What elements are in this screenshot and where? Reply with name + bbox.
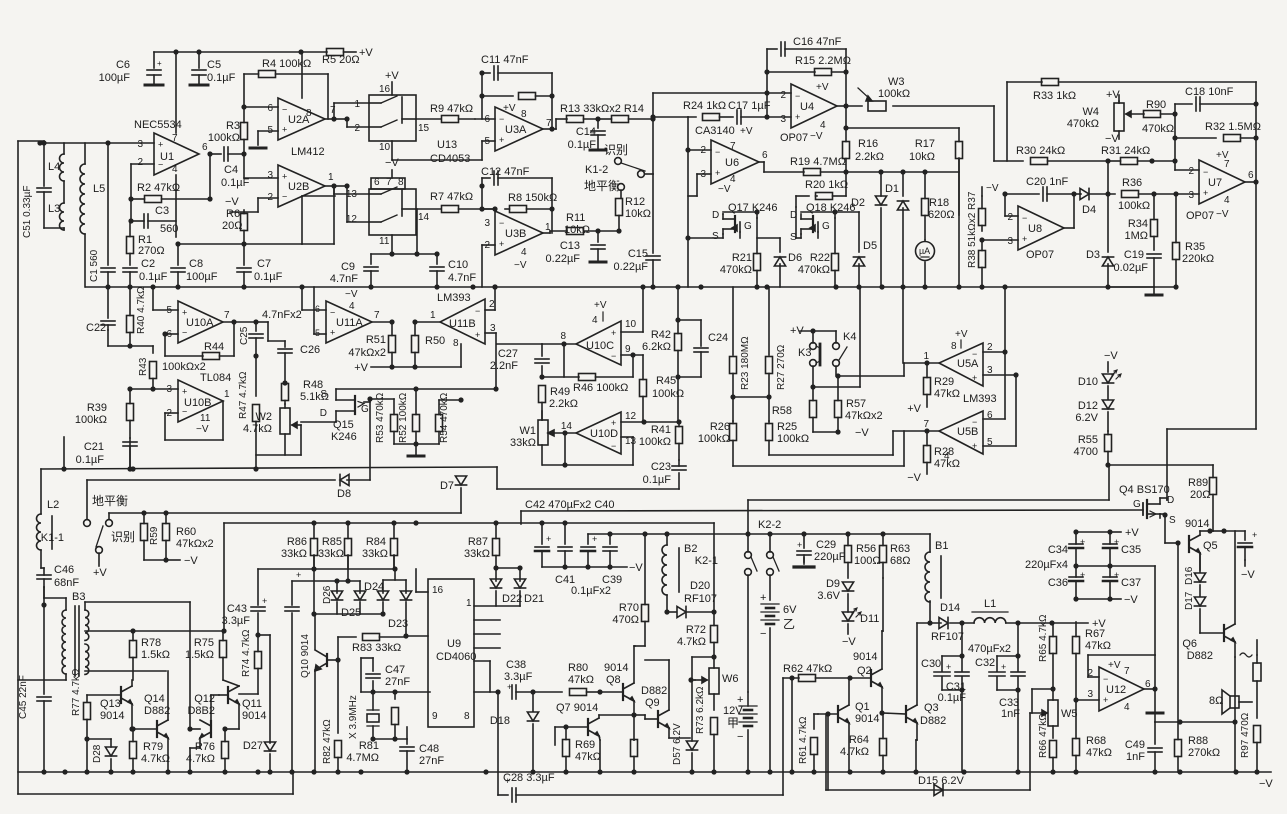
wire xyxy=(747,575,749,692)
wire xyxy=(633,701,635,715)
svg-text:R40 4.7kΩ: R40 4.7kΩ xyxy=(136,286,147,334)
junction xyxy=(979,237,984,242)
svg-text:−V: −V xyxy=(810,131,823,142)
wire xyxy=(417,253,437,255)
capacitor C39 xyxy=(603,546,617,548)
svg-text:G: G xyxy=(822,221,830,232)
wire B3 tap2 xyxy=(85,670,166,672)
wire xyxy=(779,238,781,252)
wire xyxy=(825,714,827,790)
junction xyxy=(479,93,484,98)
resistor R44b xyxy=(203,353,220,360)
wire xyxy=(687,238,689,287)
wire xyxy=(747,730,749,772)
svg-text:4.7MΩ: 4.7MΩ xyxy=(346,752,379,764)
svg-text:100kΩ: 100kΩ xyxy=(777,433,809,445)
svg-text:D20: D20 xyxy=(690,580,710,592)
svg-text:R46 100kΩ: R46 100kΩ xyxy=(573,382,628,394)
junction xyxy=(789,675,794,680)
wire xyxy=(371,253,392,255)
wire xyxy=(667,611,676,613)
junction xyxy=(311,566,316,571)
junction xyxy=(1050,686,1055,691)
svg-text:C15: C15 xyxy=(628,248,648,260)
svg-text:L4: L4 xyxy=(48,161,60,173)
wire xyxy=(543,128,556,130)
svg-text:U3B: U3B xyxy=(505,228,526,240)
svg-text:D22: D22 xyxy=(502,593,522,605)
wire L2 bar xyxy=(51,516,53,549)
transistor Q3 xyxy=(905,706,907,722)
inductor B3 secondary a xyxy=(85,610,89,640)
svg-text:C25: C25 xyxy=(239,326,250,345)
svg-text:−V: −V xyxy=(907,472,921,484)
wire xyxy=(858,212,860,252)
wire xyxy=(346,186,348,222)
wire xyxy=(1154,655,1156,689)
wire xyxy=(338,636,356,638)
svg-text:TL084: TL084 xyxy=(200,372,231,384)
junction xyxy=(1015,653,1020,658)
wire xyxy=(1160,497,1167,499)
wire xyxy=(916,739,917,741)
svg-text:4.7nFx2: 4.7nFx2 xyxy=(262,309,302,321)
svg-text:3: 3 xyxy=(484,218,490,229)
junction xyxy=(163,510,168,515)
capacitor C48 xyxy=(400,746,414,748)
svg-text:C4: C4 xyxy=(224,164,238,176)
wire xyxy=(902,208,904,287)
wire xyxy=(481,178,483,209)
junction xyxy=(843,169,848,174)
wire xyxy=(882,630,883,632)
connector box xyxy=(1253,663,1261,681)
svg-text:R82 47kΩ: R82 47kΩ xyxy=(322,719,333,764)
svg-text:3: 3 xyxy=(1007,236,1013,247)
wire xyxy=(130,345,153,347)
capacitor C47 xyxy=(366,673,380,675)
inductor B3 secondary b xyxy=(85,644,89,674)
wire xyxy=(269,635,271,743)
wire left border xyxy=(17,141,19,794)
wire xyxy=(284,404,286,408)
wire xyxy=(722,213,724,215)
wire xyxy=(1108,465,1110,500)
wire xyxy=(152,346,154,353)
wire xyxy=(382,602,384,614)
svg-text:220µFx4: 220µFx4 xyxy=(1025,559,1068,571)
wire xyxy=(541,411,543,420)
potentiometer W1 xyxy=(538,420,548,445)
svg-text:620Ω: 620Ω xyxy=(928,209,955,221)
pot wiper W4 xyxy=(1126,113,1144,115)
wire xyxy=(668,728,670,738)
junction xyxy=(924,428,929,433)
junction xyxy=(434,251,439,256)
junction xyxy=(1002,191,1007,196)
svg-text:R2 47kΩ: R2 47kΩ xyxy=(137,182,180,194)
resistor R3 xyxy=(243,107,245,123)
svg-text:D15 6.2V: D15 6.2V xyxy=(918,775,965,787)
svg-text:R88: R88 xyxy=(1188,735,1208,747)
diode D21 xyxy=(514,579,525,588)
wire xyxy=(827,714,829,790)
wire row523 xyxy=(224,522,714,524)
wire xyxy=(642,287,644,332)
svg-text:CD4060: CD4060 xyxy=(436,651,476,663)
capacitor C23 xyxy=(678,460,680,466)
wire xyxy=(903,363,905,376)
resistor R23 xyxy=(730,357,737,374)
wire xyxy=(541,344,543,356)
svg-text:C7: C7 xyxy=(257,258,271,270)
svg-text:16: 16 xyxy=(379,84,391,95)
switch U13a xyxy=(369,102,381,104)
wire xyxy=(1174,138,1176,170)
svg-text:+: + xyxy=(972,441,977,451)
wire xyxy=(747,692,749,706)
wire xyxy=(1255,104,1257,138)
wire xyxy=(313,287,315,334)
wire xyxy=(533,691,562,693)
wire xyxy=(347,479,370,481)
wire xyxy=(1052,726,1054,738)
junction xyxy=(1073,529,1078,534)
diode D8 xyxy=(340,474,349,485)
wire xyxy=(416,208,441,210)
junction xyxy=(1253,135,1258,140)
wire xyxy=(732,397,734,421)
wire xyxy=(86,739,88,772)
resistor R46b xyxy=(579,374,596,381)
resistor R13 xyxy=(567,116,584,123)
resistor R75 xyxy=(222,631,224,641)
junction xyxy=(1173,191,1178,196)
svg-text:33kΩ: 33kΩ xyxy=(281,548,307,560)
svg-text:68nF: 68nF xyxy=(54,577,79,589)
junction xyxy=(631,712,636,717)
diode D23 xyxy=(400,591,411,600)
wire xyxy=(551,178,553,209)
svg-text:7: 7 xyxy=(923,419,929,430)
wire xyxy=(222,401,224,440)
svg-text:−: − xyxy=(499,218,504,228)
resistor R29 xyxy=(926,363,928,378)
wire pin14 xyxy=(548,432,576,434)
svg-text:47kΩx2: 47kΩx2 xyxy=(176,538,214,550)
junction xyxy=(900,284,905,289)
wire xyxy=(198,52,200,68)
op-amp U2A xyxy=(278,98,325,140)
wire xyxy=(291,581,293,605)
resistor R5 xyxy=(327,49,344,56)
resistor R77 xyxy=(84,703,91,720)
wire xyxy=(131,704,133,729)
diode D26 xyxy=(331,591,342,600)
junction xyxy=(517,565,522,570)
resistor R33b xyxy=(1042,79,1059,86)
wire xyxy=(18,679,66,681)
wire xyxy=(494,287,496,310)
svg-text:R45: R45 xyxy=(656,375,676,387)
junction xyxy=(730,394,735,399)
wire xyxy=(436,254,438,264)
svg-text:D8: D8 xyxy=(337,488,351,500)
svg-text:R60: R60 xyxy=(176,526,196,538)
ground mid bus xyxy=(1146,294,1162,297)
svg-text:−: − xyxy=(1203,167,1208,177)
svg-text:C17 1µF: C17 1µF xyxy=(728,100,771,112)
diode D3 xyxy=(1102,257,1113,266)
wire xyxy=(372,321,392,323)
junction xyxy=(1105,158,1110,163)
wire bend down xyxy=(713,523,715,612)
wire xyxy=(1200,530,1210,532)
wire xyxy=(532,692,534,711)
svg-text:Q11: Q11 xyxy=(242,698,262,710)
svg-text:4: 4 xyxy=(349,301,355,312)
wire xyxy=(132,728,157,730)
svg-text:8: 8 xyxy=(951,341,957,352)
resistor R28 xyxy=(926,431,928,446)
junction xyxy=(128,196,133,201)
svg-text:D9: D9 xyxy=(826,578,840,590)
inductor L4 xyxy=(60,154,65,181)
capacitor C6 xyxy=(147,69,161,71)
svg-text:C2: C2 xyxy=(141,258,155,270)
wire xyxy=(1017,623,1019,671)
svg-text:+: + xyxy=(546,534,551,544)
wire xyxy=(1175,137,1216,139)
svg-text:2.2kΩ: 2.2kΩ xyxy=(549,398,578,410)
junction xyxy=(141,510,146,515)
junction xyxy=(597,769,602,774)
wire xyxy=(846,171,903,173)
pins 6 7 8 box xyxy=(371,178,405,189)
svg-text:D14: D14 xyxy=(940,602,960,614)
junction xyxy=(1253,179,1258,184)
wire xyxy=(219,694,228,696)
capacitor C18 xyxy=(1195,97,1197,111)
wire xyxy=(415,569,417,592)
op-amp U10B xyxy=(178,380,223,422)
wire pin9 xyxy=(621,354,643,356)
capacitor C38b xyxy=(511,685,513,699)
svg-text:4.7kΩ: 4.7kΩ xyxy=(677,636,706,648)
svg-text:+: + xyxy=(760,592,766,604)
wire xyxy=(243,74,245,107)
wire sub rail A xyxy=(18,793,293,795)
svg-text:C45 22nF: C45 22nF xyxy=(18,675,29,719)
wire xyxy=(1088,654,1155,656)
wire xyxy=(1175,103,1192,105)
transistor Q8 xyxy=(622,684,624,700)
inductor B3 primary xyxy=(62,610,66,674)
wire xyxy=(993,106,995,161)
wire xyxy=(475,118,495,120)
capacitor C45 xyxy=(37,696,51,698)
junction xyxy=(207,151,212,156)
junction xyxy=(175,284,180,289)
junction xyxy=(764,90,769,95)
wire xyxy=(563,344,565,377)
wire xyxy=(713,657,715,668)
capacitor C50 xyxy=(1238,542,1252,544)
junction xyxy=(539,374,544,379)
junction xyxy=(913,769,918,774)
wire -V mid bus xyxy=(86,286,1154,288)
diode D1 xyxy=(897,201,908,210)
svg-text:K246: K246 xyxy=(331,431,357,443)
wire row469 xyxy=(41,467,497,469)
junction xyxy=(187,726,192,731)
svg-text:−: − xyxy=(499,114,504,124)
svg-text:470kΩ: 470kΩ xyxy=(798,264,830,276)
switch K2-2 xyxy=(767,552,774,559)
svg-text:100kΩ: 100kΩ xyxy=(878,88,910,100)
wire xyxy=(239,693,258,695)
junction xyxy=(165,769,170,774)
wire xyxy=(255,356,257,396)
wire xyxy=(1153,193,1155,195)
svg-text:100kΩ: 100kΩ xyxy=(652,388,684,400)
resistor R83b xyxy=(363,634,380,641)
svg-text:R41: R41 xyxy=(651,424,671,436)
svg-text:C34: C34 xyxy=(1048,544,1068,556)
junction xyxy=(1221,528,1226,533)
junction xyxy=(979,284,984,289)
pin4 tick xyxy=(602,312,604,321)
wire xyxy=(482,208,495,210)
resistor R6 xyxy=(243,210,245,214)
wire xyxy=(1007,81,1042,83)
wire xyxy=(63,181,65,203)
svg-text:W4: W4 xyxy=(1083,106,1100,118)
svg-text:U11B: U11B xyxy=(449,318,476,330)
wire xyxy=(167,671,169,720)
wire xyxy=(666,534,668,545)
capacitor C26 xyxy=(278,348,292,350)
svg-text:µA: µA xyxy=(919,246,930,256)
svg-text:6V: 6V xyxy=(783,604,797,616)
svg-text:9014: 9014 xyxy=(604,662,628,674)
diode D9 xyxy=(842,582,853,591)
svg-text:R4 100kΩ: R4 100kΩ xyxy=(262,58,311,70)
junction xyxy=(641,419,646,424)
svg-text:0.1µF: 0.1µF xyxy=(254,271,283,283)
junction xyxy=(764,69,769,74)
svg-text:C35: C35 xyxy=(1121,544,1141,556)
wire xyxy=(812,331,814,343)
capacitor C12 xyxy=(493,171,495,185)
svg-text:R84: R84 xyxy=(366,536,386,548)
svg-text:−V: −V xyxy=(1124,594,1138,606)
wire xyxy=(199,738,201,748)
svg-text:9014: 9014 xyxy=(242,710,266,722)
resistor R20b xyxy=(816,195,818,197)
svg-text:4: 4 xyxy=(592,315,598,326)
junction xyxy=(1173,284,1178,289)
svg-text:10: 10 xyxy=(379,142,391,153)
resistor R81b xyxy=(392,708,399,725)
resistor R26 xyxy=(732,421,734,424)
svg-text:甲: 甲 xyxy=(727,716,739,730)
wire xyxy=(87,738,111,740)
resistor R16 xyxy=(845,106,847,142)
svg-text:R87: R87 xyxy=(468,536,488,548)
svg-text:R63: R63 xyxy=(890,543,910,555)
wire L3 col down xyxy=(63,437,65,469)
junction xyxy=(711,769,716,774)
wire xyxy=(164,334,166,356)
wire xyxy=(325,185,334,187)
junction xyxy=(1013,372,1018,377)
junction xyxy=(492,206,497,211)
svg-text:0.22µF: 0.22µF xyxy=(546,253,581,265)
resistor R41 xyxy=(678,422,680,427)
wire xyxy=(85,601,190,603)
svg-text:12: 12 xyxy=(625,411,637,422)
junction xyxy=(811,769,816,774)
junction xyxy=(1172,135,1177,140)
wire xyxy=(225,728,239,730)
svg-text:Q7 9014: Q7 9014 xyxy=(556,702,598,714)
svg-text:−V: −V xyxy=(225,196,239,208)
svg-text:U12: U12 xyxy=(1106,684,1126,696)
wire xyxy=(687,116,689,118)
junction xyxy=(1107,596,1112,601)
svg-text:D7: D7 xyxy=(440,480,454,492)
wire x xyxy=(645,659,669,661)
transistor Q10 xyxy=(326,654,328,666)
svg-text:U6: U6 xyxy=(725,157,739,169)
junction xyxy=(370,736,375,741)
resistor R70b xyxy=(644,534,646,605)
svg-text:4.7nF: 4.7nF xyxy=(330,273,358,285)
svg-text:D23: D23 xyxy=(388,618,408,630)
junction xyxy=(495,689,500,694)
svg-text:+: + xyxy=(715,168,720,178)
wire xyxy=(691,657,693,680)
svg-text:Q1: Q1 xyxy=(855,701,870,713)
capacitor C19 xyxy=(1147,253,1161,255)
capacitor C17 xyxy=(736,110,738,124)
junction xyxy=(879,284,884,289)
wire bottom rail xyxy=(18,771,1271,773)
wire xyxy=(258,197,278,199)
junction xyxy=(298,49,303,54)
wire xyxy=(1153,287,1155,295)
svg-text:C14: C14 xyxy=(576,126,596,138)
svg-text:L1: L1 xyxy=(984,598,996,610)
diode D24 xyxy=(377,591,388,600)
svg-text:识别: 识别 xyxy=(111,530,135,544)
svg-text:4.7kΩ: 4.7kΩ xyxy=(243,423,272,435)
junction xyxy=(1073,697,1078,702)
capacitor C24 xyxy=(694,347,708,349)
ground C14 xyxy=(590,149,606,152)
svg-text:地平衡: 地平衡 xyxy=(584,179,620,193)
svg-text:8: 8 xyxy=(306,108,312,119)
capacitor C15 xyxy=(646,255,660,257)
wire xyxy=(416,209,418,254)
wire pin8 xyxy=(542,343,576,345)
junction xyxy=(563,769,568,774)
wire xyxy=(845,72,847,106)
svg-text:X 3.9MHz: X 3.9MHz xyxy=(348,695,359,739)
svg-text:−V: −V xyxy=(196,424,209,435)
svg-text:27nF: 27nF xyxy=(385,676,410,688)
